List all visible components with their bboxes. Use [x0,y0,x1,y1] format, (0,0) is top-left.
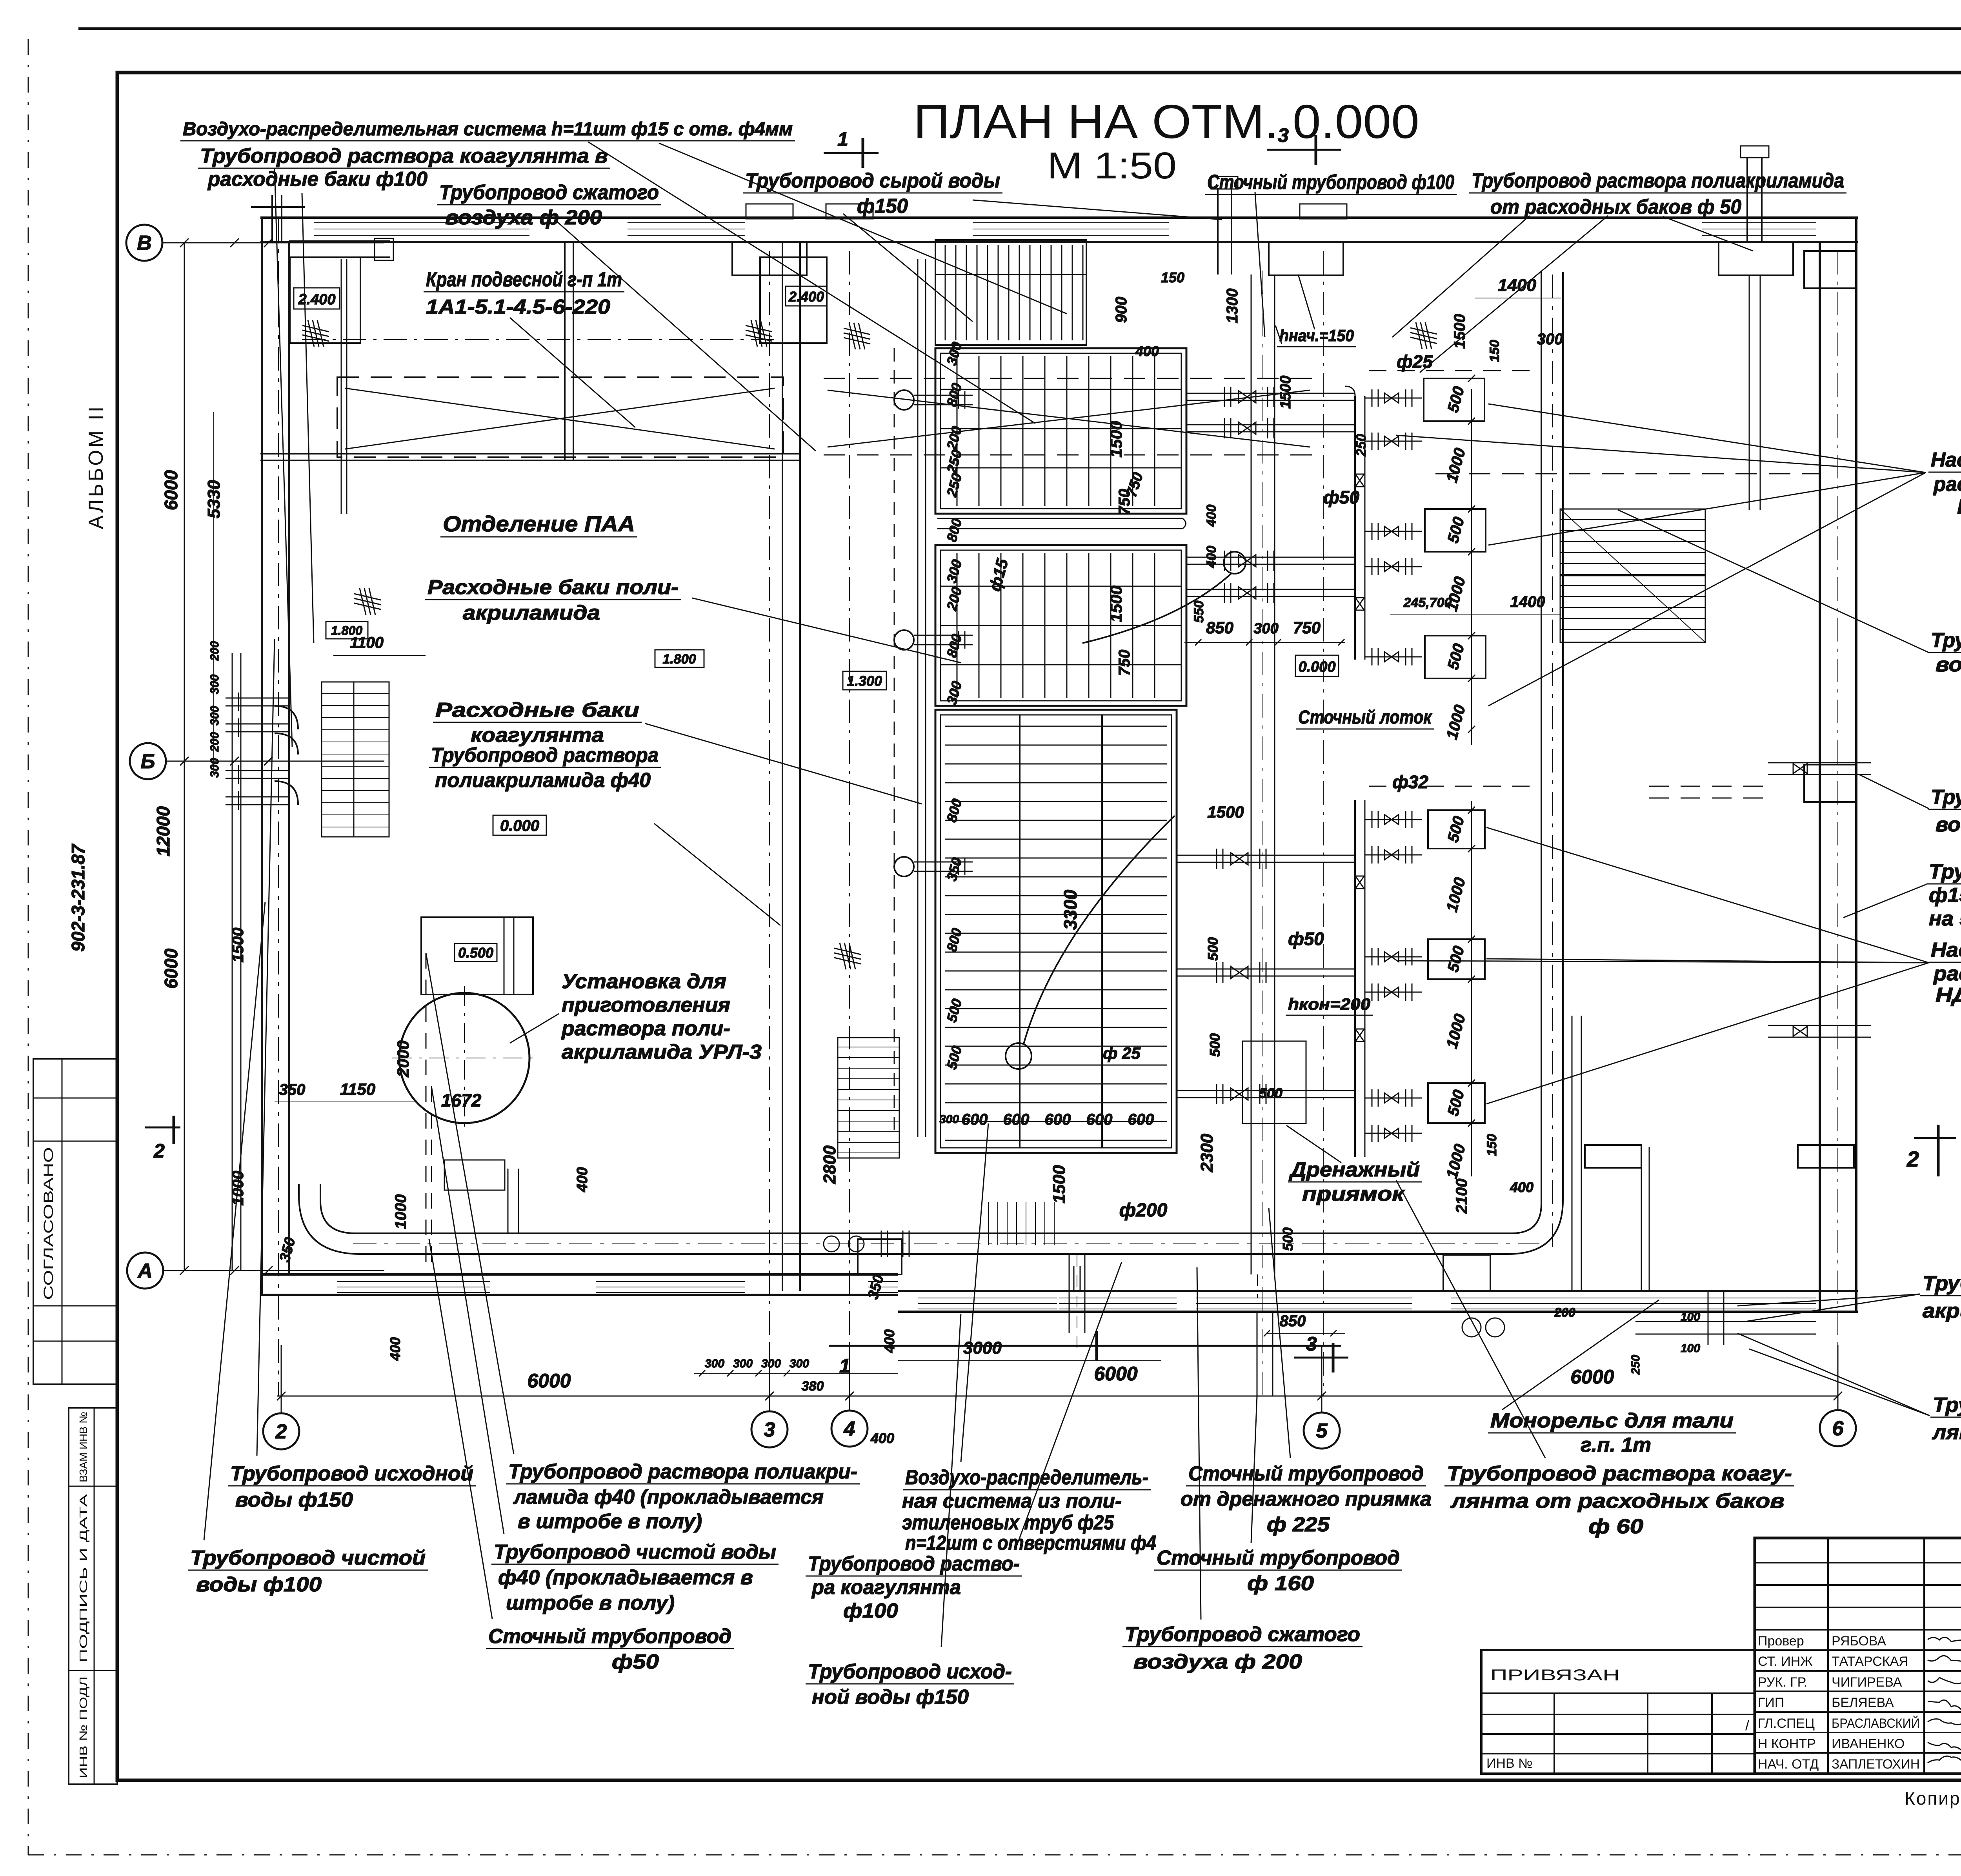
svg-text:ф32: ф32 [1392,772,1428,792]
svg-text:Сточный трубопровод: Сточный трубопровод [488,1625,731,1648]
svg-text:ф 25: ф 25 [1103,1044,1141,1062]
svg-text:1500: 1500 [1050,1165,1069,1203]
svg-text:Трубопровод раство-: Трубопровод раство- [808,1552,1020,1575]
svg-text:250: 250 [1629,1355,1642,1375]
svg-text:раствора поли-: раствора поли- [561,1017,730,1040]
svg-text:0.500: 0.500 [458,945,493,961]
svg-text:Трубопровод раствора полиакри-: Трубопровод раствора полиакри- [508,1460,857,1483]
svg-text:Трубопровод сырой воды: Трубопровод сырой воды [745,169,1000,192]
svg-text:1672: 1672 [441,1090,482,1111]
svg-text:1А1-5.1-4.5-6-220: 1А1-5.1-4.5-6-220 [426,296,610,318]
svg-text:400: 400 [870,1430,894,1446]
svg-text:воды ф100: воды ф100 [196,1573,322,1596]
svg-text:902-3-231.87: 902-3-231.87 [68,843,88,952]
svg-text:А: А [137,1260,153,1282]
svg-text:500: 500 [1280,1227,1296,1251]
svg-text:0.000: 0.000 [500,817,539,834]
svg-text:ф50: ф50 [1288,929,1324,949]
svg-text:hкон=200: hкон=200 [1288,995,1370,1013]
svg-text:ф 160: ф 160 [1247,1572,1314,1595]
svg-text:4: 4 [844,1418,855,1440]
svg-text:300: 300 [789,1357,809,1370]
svg-text:НД-2,5 1000/16: НД-2,5 1000/16 [1957,496,1961,518]
svg-text:850: 850 [1280,1312,1306,1330]
svg-text:Воздухо-распределитель-: Воздухо-распределитель- [905,1466,1148,1489]
svg-text:Отделение ПАА: Отделение ПАА [443,511,635,536]
svg-text:ф25: ф25 [1397,351,1433,372]
svg-text:на 5 реагентов (показан условн: на 5 реагентов (показан условно) [1929,907,1961,930]
svg-text:0.000: 0.000 [1298,659,1335,675]
svg-text:300: 300 [208,674,221,694]
svg-text:Кран подвесной г-п 1т: Кран подвесной г-п 1т [426,268,622,291]
svg-text:150: 150 [1484,1134,1499,1156]
svg-text:Сточный лоток: Сточный лоток [1298,707,1432,728]
svg-text:3: 3 [1306,1333,1317,1355]
svg-text:n=12шт с отверстиями ф4: n=12шт с отверстиями ф4 [905,1532,1156,1554]
svg-text:300: 300 [208,758,221,778]
svg-text:лянта к месту ввода 2ф32: лянта к месту ввода 2ф32 [1932,1421,1961,1444]
svg-text:/: / [1745,1717,1749,1733]
svg-text:ф200: ф200 [1119,1200,1168,1221]
svg-text:г.п. 1т: г.п. 1т [1581,1434,1651,1456]
svg-text:ЗАПЛЕТОХИН: ЗАПЛЕТОХИН [1832,1757,1920,1772]
svg-text:1: 1 [837,128,848,150]
svg-text:1: 1 [839,1355,850,1377]
svg-text:ф 225: ф 225 [1267,1513,1330,1536]
svg-text:ф50: ф50 [612,1651,659,1673]
svg-text:Трубопровод сжатого: Трубопровод сжатого [1931,629,1961,652]
svg-text:от расходных баков ф 50: от расходных баков ф 50 [1490,196,1741,218]
svg-text:3300: 3300 [1060,889,1081,930]
svg-text:СОГЛАСОВАНО: СОГЛАСОВАНО [41,1147,56,1300]
svg-text:ИВАНЕНКО: ИВАНЕНКО [1832,1736,1905,1751]
svg-text:200: 200 [208,641,221,661]
svg-text:Трубопровод сжатого: Трубопровод сжатого [439,181,659,204]
svg-text:1300: 1300 [1224,289,1241,324]
svg-text:5330: 5330 [204,480,224,518]
svg-text:ламида ф40 (прокладывается: ламида ф40 (прокладывается [513,1486,824,1509]
svg-text:СТ. ИНЖ: СТ. ИНЖ [1758,1654,1813,1669]
svg-text:1500: 1500 [1277,376,1294,409]
svg-text:2: 2 [153,1140,165,1162]
svg-text:штробе в полу): штробе в полу) [506,1592,675,1614]
svg-text:600: 600 [1128,1111,1154,1128]
svg-text:1400: 1400 [1510,593,1545,611]
svg-text:1.800: 1.800 [662,652,696,667]
svg-text:Копировал: Коршунова: Копировал: Коршунова [1905,1788,1961,1809]
svg-text:1500: 1500 [1207,803,1244,821]
svg-text:ф150: ф150 [857,195,908,218]
svg-text:2.400: 2.400 [298,291,335,308]
svg-text:Монорельс для тали: Монорельс для тали [1490,1409,1734,1432]
svg-text:1500: 1500 [1107,421,1125,457]
svg-text:600: 600 [1086,1111,1113,1128]
svg-text:М 1:50: М 1:50 [1047,145,1177,187]
svg-text:РЯБОВА: РЯБОВА [1832,1634,1886,1649]
svg-text:1150: 1150 [340,1080,375,1098]
svg-text:РУК. ГР.: РУК. ГР. [1758,1675,1807,1690]
svg-text:6000: 6000 [161,948,181,989]
svg-text:6000: 6000 [527,1370,571,1392]
svg-text:2: 2 [275,1420,287,1443]
svg-text:приготовления: приготовления [562,994,730,1016]
svg-text:6000: 6000 [1094,1363,1137,1385]
svg-text:600: 600 [1003,1111,1030,1128]
svg-text:АЛЬБОМ II: АЛЬБОМ II [85,404,107,529]
svg-text:300: 300 [208,706,221,725]
svg-text:3: 3 [1278,124,1289,146]
svg-text:ф40 (прокладывается в: ф40 (прокладывается в [498,1566,753,1589]
svg-text:Дренажный: Дренажный [1289,1158,1420,1181]
svg-text:300: 300 [1253,620,1278,637]
svg-text:Насосы для дозирования: Насосы для дозирования [1931,939,1961,962]
svg-text:2300: 2300 [1197,1134,1217,1172]
svg-text:Трубопроводы раствора коагу-: Трубопроводы раствора коагу- [1933,1394,1961,1416]
svg-text:400: 400 [1510,1179,1534,1195]
svg-text:1.300: 1.300 [847,673,882,689]
svg-text:1500: 1500 [1107,585,1125,622]
svg-text:Н КОНТР: Н КОНТР [1758,1736,1816,1751]
svg-text:приямок: приямок [1302,1183,1405,1205]
svg-text:ПРИВЯЗАН: ПРИВЯЗАН [1490,1667,1620,1684]
svg-text:ЧИГИРЕВА: ЧИГИРЕВА [1832,1675,1902,1690]
svg-text:400: 400 [574,1167,591,1192]
svg-text:300: 300 [761,1357,781,1370]
svg-text:350: 350 [279,1081,306,1098]
svg-text:Трубопровод раствора: Трубопровод раствора [431,744,659,767]
svg-text:150: 150 [1161,269,1184,285]
svg-text:ф100: ф100 [843,1600,898,1622]
svg-text:акриламида УРЛ-3: акриламида УРЛ-3 [562,1041,762,1063]
svg-text:воды ф 150: воды ф 150 [1936,813,1961,836]
svg-text:1000: 1000 [392,1194,409,1229]
svg-text:6000: 6000 [161,470,181,510]
svg-text:Трубопровод раствора коагулянт: Трубопровод раствора коагулянта в [200,145,608,167]
svg-text:ф 60: ф 60 [1588,1515,1643,1538]
svg-text:100: 100 [1681,1342,1700,1355]
svg-text:ИНВ № ПОДЛ: ИНВ № ПОДЛ [77,1676,89,1778]
svg-text:100: 100 [1681,1311,1700,1323]
svg-text:воздуха ф 200: воздуха ф 200 [445,206,602,229]
svg-text:ПОДПИСЬ И ДАТА: ПОДПИСЬ И ДАТА [77,1494,89,1663]
svg-text:2000: 2000 [394,1040,412,1077]
svg-text:Трубопровод чистой: Трубопровод чистой [190,1547,426,1569]
svg-text:400: 400 [1135,343,1159,359]
svg-text:лянта от расходных баков: лянта от расходных баков [1450,1490,1785,1512]
svg-text:ПЛАН НА ОТМ. 0.000: ПЛАН НА ОТМ. 0.000 [913,95,1419,148]
svg-text:Расходные баки поли-: Расходные баки поли- [427,576,679,599]
svg-text:245,700: 245,700 [1403,595,1452,610]
svg-text:раствора полиакриламида: раствора полиакриламида [1933,473,1961,496]
svg-text:акриламида: акриламида [463,602,600,624]
svg-text:2: 2 [1906,1147,1919,1171]
svg-text:Провер: Провер [1758,1634,1804,1649]
svg-text:Трубопровод исход-: Трубопровод исход- [808,1660,1012,1683]
svg-text:200: 200 [208,732,221,752]
svg-text:750: 750 [1116,650,1133,676]
svg-text:воздуха ф 200: воздуха ф 200 [1936,653,1961,676]
svg-text:Трубопровод исходной воды: Трубопровод исходной воды [1929,860,1961,883]
svg-text:ГЛ.СПЕЦ: ГЛ.СПЕЦ [1758,1716,1815,1731]
svg-text:5: 5 [1316,1420,1328,1442]
svg-text:400: 400 [881,1329,897,1353]
svg-text:850: 850 [1206,618,1233,637]
svg-text:Воздухо-распределительная сист: Воздухо-распределительная система h=11шт… [183,119,793,140]
svg-text:ра коагулянта: ра коагулянта [811,1576,961,1599]
svg-text:500: 500 [1259,1085,1282,1101]
svg-text:150: 150 [1487,340,1502,362]
svg-text:380: 380 [802,1379,824,1394]
svg-text:500: 500 [1207,1033,1223,1057]
svg-text:1.800: 1.800 [331,624,362,638]
svg-text:250: 250 [1354,434,1369,457]
svg-text:400: 400 [1204,505,1219,527]
svg-text:Сточный трубопровод: Сточный трубопровод [1157,1547,1400,1569]
svg-text:6: 6 [1832,1417,1844,1440]
svg-text:Трубопровод исходной: Трубопровод исходной [230,1462,473,1485]
svg-text:Трубопровод раствора полиакрил: Трубопровод раствора полиакриламида [1472,169,1844,192]
svg-text:Трубопроводы раствора поли-: Трубопроводы раствора поли- [1923,1272,1961,1295]
svg-text:200: 200 [1554,1305,1575,1320]
svg-text:раствора коагулянта: раствора коагулянта [1933,962,1961,985]
svg-text:Трубопровод чистой воды: Трубопровод чистой воды [494,1541,776,1563]
svg-text:Трубопровод раствора коагу-: Трубопровод раствора коагу- [1447,1462,1792,1485]
svg-text:Установка для: Установка для [562,970,726,993]
svg-text:ИНВ №: ИНВ № [1486,1756,1533,1771]
svg-text:300: 300 [705,1357,724,1370]
svg-text:600: 600 [1045,1111,1071,1128]
svg-text:ВЗАМ ИНВ №: ВЗАМ ИНВ № [77,1412,89,1482]
svg-text:расходные баки ф100: расходные баки ф100 [207,168,427,191]
svg-text:в штробе в полу): в штробе в полу) [518,1510,702,1533]
svg-text:3: 3 [764,1418,775,1441]
svg-text:2.400: 2.400 [788,289,824,305]
svg-text:Трубопровод чистой: Трубопровод чистой [1931,786,1961,809]
svg-text:ная система из поли-: ная система из поли- [902,1490,1122,1512]
svg-text:ф50: ф50 [1323,487,1359,507]
svg-text:В: В [137,232,152,254]
svg-text:от дренажного приямка: от дренажного приямка [1181,1488,1432,1511]
svg-text:Б: Б [141,750,155,773]
svg-text:Сточный трубопровод: Сточный трубопровод [1188,1462,1424,1485]
svg-text:ТАТАРСКАЯ: ТАТАРСКАЯ [1832,1654,1908,1669]
svg-text:300: 300 [733,1357,753,1370]
svg-text:коагулянта: коагулянта [471,724,604,747]
svg-text:hнач.=150: hнач.=150 [1279,326,1354,345]
svg-text:воздуха ф 200: воздуха ф 200 [1133,1651,1302,1673]
svg-text:Трубопровод сжатого: Трубопровод сжатого [1125,1623,1360,1646]
svg-text:500: 500 [1205,937,1221,961]
svg-text:Насосы для дозирования: Насосы для дозирования [1931,449,1961,471]
svg-text:2100: 2100 [1453,1179,1470,1214]
svg-text:воды ф150: воды ф150 [235,1489,353,1511]
svg-text:этиленовых труб ф25: этиленовых труб ф25 [902,1511,1114,1534]
svg-text:400: 400 [1204,546,1219,569]
svg-text:полиакриламида ф40: полиакриламида ф40 [435,769,651,792]
svg-text:ф150 для реагентного хозяйства: ф150 для реагентного хозяйства [1929,884,1961,907]
svg-text:600: 600 [962,1111,988,1128]
svg-text:НАЧ. ОТД: НАЧ. ОТД [1758,1757,1819,1772]
svg-text:400: 400 [387,1337,403,1361]
svg-text:БЕЛЯЕВА: БЕЛЯЕВА [1832,1695,1894,1710]
svg-text:Сточный трубопровод ф100: Сточный трубопровод ф100 [1207,171,1454,194]
svg-text:550: 550 [1192,601,1206,623]
svg-text:2800: 2800 [820,1145,839,1184]
svg-text:Расходные баки: Расходные баки [435,699,639,722]
svg-text:6000: 6000 [1570,1366,1614,1388]
svg-text:БРАСЛАВСКИЙ: БРАСЛАВСКИЙ [1832,1716,1920,1731]
svg-text:НД-2,5 1000/16: НД-2,5 1000/16 [1936,984,1961,1007]
svg-text:ГИП: ГИП [1758,1695,1784,1710]
svg-text:300: 300 [939,1113,959,1126]
svg-text:750: 750 [1293,618,1321,637]
svg-text:900: 900 [1113,297,1130,323]
svg-text:ной воды ф150: ной воды ф150 [812,1686,969,1709]
svg-text:акриламида к месту ввода 2 ф 2: акриламида к месту ввода 2 ф 25 [1923,1300,1961,1322]
svg-text:12000: 12000 [153,806,173,856]
